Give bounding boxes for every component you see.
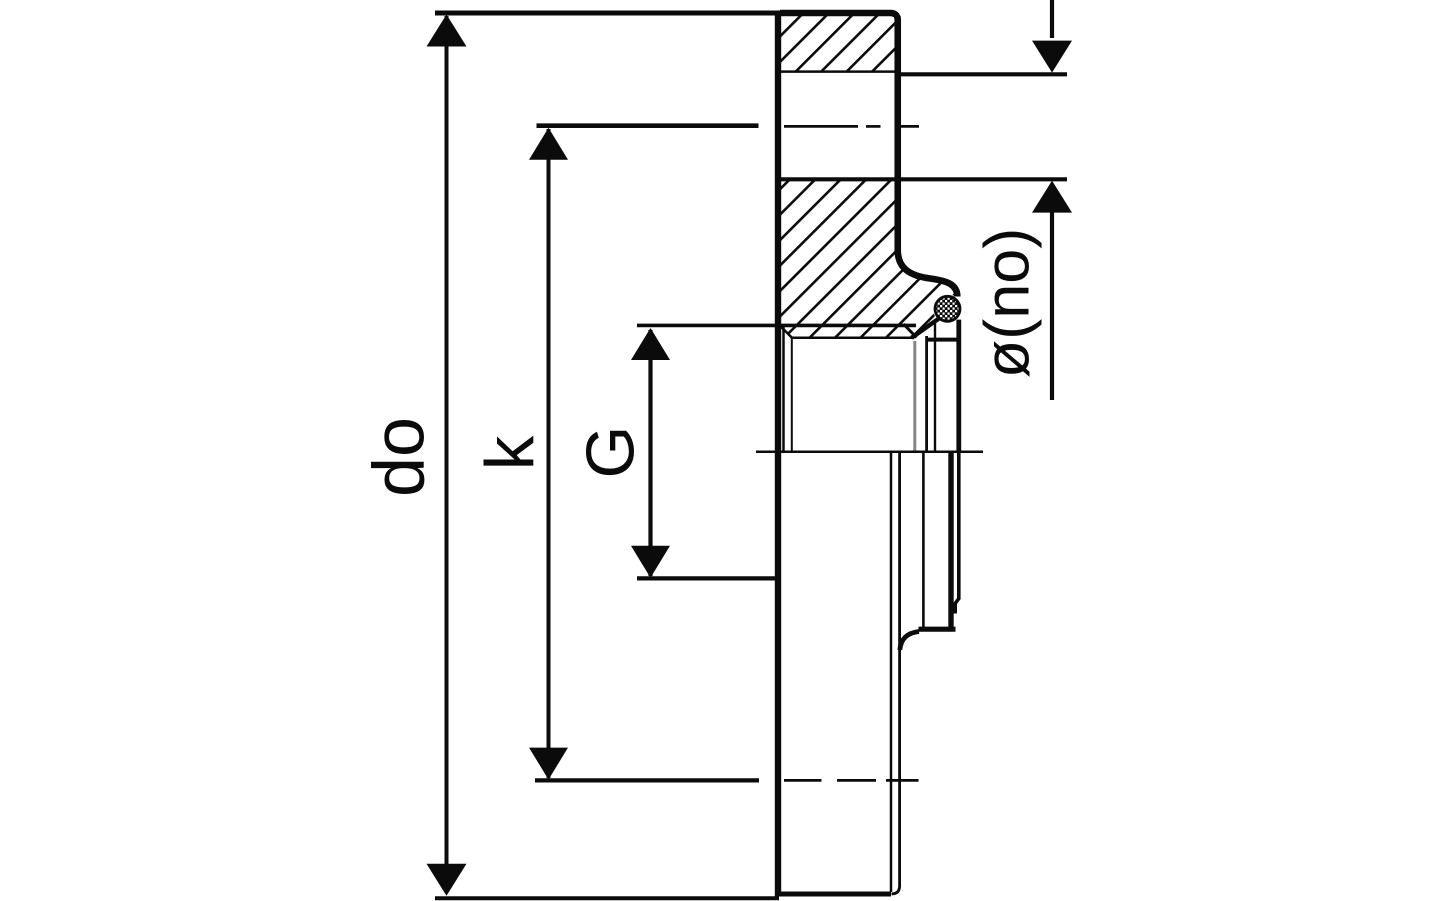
thread root line bbox=[792, 337, 914, 340]
o-ring seal cross-section bbox=[935, 296, 960, 321]
dimension k : dimension line bbox=[547, 129, 551, 778]
bore bottom chamfer bbox=[781, 326, 793, 338]
dimension k : bottom arrowhead bbox=[529, 748, 568, 780]
dimension do : dimension line bbox=[445, 16, 449, 893]
dimension k : top extension line bbox=[537, 123, 759, 128]
disc face edge line (outside view) bbox=[890, 452, 893, 892]
bore bottom face line bbox=[782, 327, 785, 452]
dimension do : top arrowhead bbox=[427, 15, 467, 47]
disc face outer edge with bottom corner round bbox=[892, 452, 900, 894]
bolt hole centerline (top, dash-dot) bbox=[784, 125, 919, 128]
socket mouth chamfer B bbox=[912, 319, 939, 338]
dimension line do : bottom extension line bbox=[435, 896, 779, 900]
hub fillet at end face bbox=[900, 632, 919, 651]
flange left face bbox=[775, 11, 781, 897]
socket end outer line below axis bbox=[948, 452, 953, 627]
white gap around o-ring bbox=[933, 294, 962, 323]
hatched section: flange ring above top bolt hole bbox=[775, 11, 901, 71]
svg-text:k: k bbox=[472, 435, 549, 470]
dimension do : bottom arrowhead bbox=[427, 864, 467, 896]
end face inner edge line bbox=[922, 452, 925, 627]
dimension k : bottom extension line bbox=[535, 778, 759, 782]
dimension line do : top extension line bbox=[435, 11, 889, 16]
dimension k : top arrowhead bbox=[529, 128, 568, 160]
svg-text:do: do bbox=[360, 417, 440, 497]
flange outline: top edge with rounded corner and right face of disc bbox=[780, 13, 957, 297]
dimension G : bottom extension line bbox=[637, 576, 777, 580]
socket outer wall bbox=[956, 320, 961, 452]
dimension hole dia : upper dimension line bbox=[1050, 0, 1054, 38]
dimension hole dia : upper arrowhead (down) bbox=[1032, 41, 1072, 73]
dimension G : dimension line bbox=[648, 330, 652, 576]
thread end line bbox=[925, 336, 928, 452]
dimension hole dia : lower arrowhead (up) bbox=[1032, 181, 1072, 213]
hatched section: flange middle block and hub bbox=[775, 178, 957, 337]
bolt hole centerline (bottom, dash-dot) bbox=[784, 779, 919, 782]
socket mouth chamfer A bbox=[904, 324, 917, 338]
flange bottom edge bbox=[775, 892, 891, 897]
socket end face bbox=[919, 627, 956, 632]
dimension hole dia : lower dimension line bbox=[1050, 212, 1054, 400]
dimension G : bottom arrowhead bbox=[631, 546, 670, 578]
axis line bbox=[756, 451, 983, 454]
svg-text:G: G bbox=[573, 426, 649, 479]
thread crest line + G top extension line bbox=[637, 324, 916, 328]
top bolt hole upper edge bbox=[781, 70, 896, 73]
thread inner line bbox=[934, 321, 936, 452]
bore bottom chamfer edge line bbox=[791, 338, 793, 452]
dimension G : top arrowhead bbox=[631, 328, 670, 360]
socket rim edge below axis with chamfer step bbox=[955, 452, 959, 614]
thread runout line (gray) bbox=[913, 341, 916, 451]
svg-text:ø(no): ø(no) bbox=[973, 228, 1043, 379]
o-ring groove bottom line bbox=[926, 338, 960, 342]
top bolt hole lower edge + extension line for hole diameter (bottom) bbox=[781, 177, 1067, 181]
extension line for hole diameter (top) bbox=[897, 72, 1068, 76]
